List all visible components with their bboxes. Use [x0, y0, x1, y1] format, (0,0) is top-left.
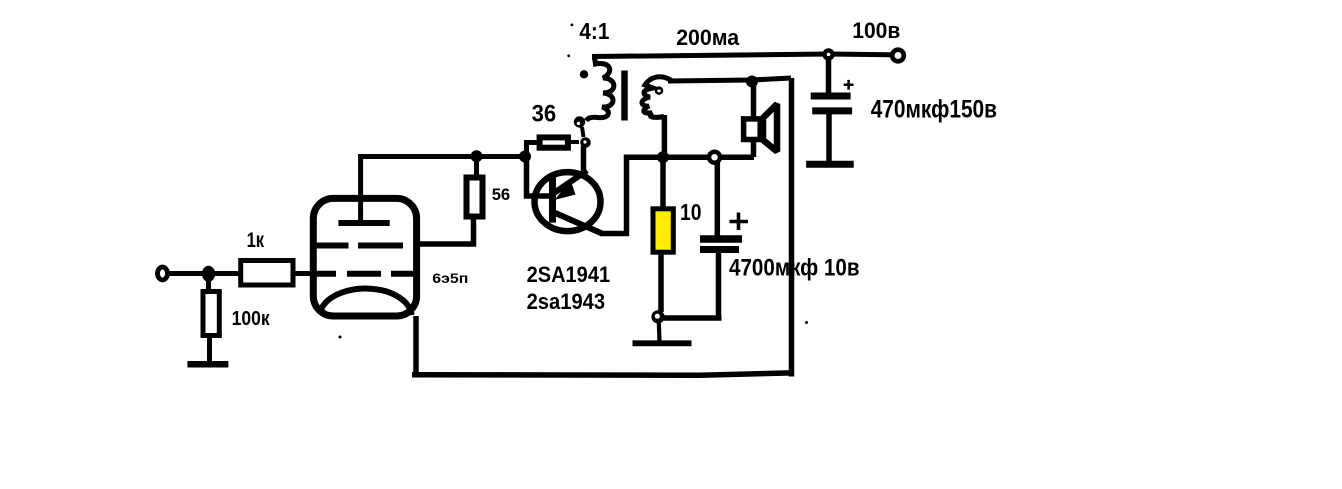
svg-text:100в: 100в: [852, 18, 900, 43]
junction emitter line / R5: [657, 151, 669, 163]
svg-text:100к: 100к: [232, 308, 271, 330]
junction top rail / C2: [822, 48, 834, 60]
svg-text:4:1: 4:1: [579, 18, 609, 44]
wire C2 bottom lead: [826, 113, 832, 161]
wire base node to R4: [527, 143, 541, 159]
svg-text:200ма: 200ма: [676, 25, 739, 50]
junction base node: [519, 151, 531, 163]
wire between node circles: [582, 127, 584, 137]
tube V1 control grid dashed: [315, 271, 418, 277]
ground GND3 bar: [806, 161, 854, 168]
transistor Q1 emitter diagonal: [554, 171, 587, 194]
wire anode lead up: [358, 154, 363, 223]
transformer T1 primary phase dot: [580, 70, 588, 78]
resistor R4 36: [540, 137, 568, 147]
wire screen grid to R3: [416, 219, 474, 244]
svg-text:2sa1943: 2sa1943: [527, 289, 606, 314]
wire R5 bottom lead: [658, 250, 664, 312]
stray speck 1: [571, 24, 574, 27]
svg-text:1к: 1к: [247, 229, 265, 252]
wire ground link to C1: [663, 253, 722, 318]
transistor Q1 base bar: [549, 175, 556, 223]
output terminal 100v: [892, 50, 904, 62]
svg-text:56: 56: [492, 185, 511, 204]
svg-text:2SA1941: 2SA1941: [527, 262, 611, 287]
junction input node: [202, 266, 215, 282]
wire base node down to transistor base: [527, 155, 553, 196]
stray speck 4: [805, 321, 808, 324]
wire R1 to tube grid1: [293, 271, 314, 276]
transformer T1 secondary phase dot: [656, 88, 662, 94]
svg-text:4700мкф 10в: 4700мкф 10в: [729, 255, 860, 282]
wire input to junction: [168, 271, 241, 276]
wire speaker bottom lead: [751, 142, 757, 157]
tube V1 envelope 6e5p: [313, 198, 416, 316]
svg-text:470мкф150в: 470мкф150в: [871, 96, 997, 124]
wire emitter vertical from node circle: [581, 146, 587, 174]
svg-text:36: 36: [532, 100, 557, 127]
transformer T1 primary winding: [586, 57, 614, 121]
stray speck 3: [339, 336, 342, 339]
wire right rail down: [789, 78, 795, 377]
wire secondary bottom lead: [662, 115, 668, 158]
transformer T1 secondary winding: [642, 77, 673, 118]
node circle primary bottom terminal: [574, 116, 585, 127]
svg-text:6э5п: 6э5п: [432, 271, 468, 286]
resistor R5 10: [653, 209, 673, 252]
resistor R3 56: [467, 178, 483, 217]
wire bottom rail: [412, 373, 791, 375]
tube V1 screen grid dashed: [315, 243, 404, 249]
wire C1 to tap circle: [715, 161, 721, 236]
wire node to R3 top: [474, 156, 479, 176]
speaker LS1 cone: [763, 104, 777, 152]
transistor Q1 collector diagonal: [553, 212, 602, 234]
junction speaker top node: [746, 76, 758, 88]
wire C2 top lead: [826, 56, 832, 96]
wire junction down to R2: [206, 274, 211, 295]
wire R5 top lead: [660, 157, 666, 212]
stray speck 2: [567, 54, 570, 57]
label C2 polarity +: [844, 80, 854, 90]
wire cathode down to bottom rail: [413, 316, 419, 375]
node circle emitter terminal: [580, 137, 591, 148]
wire top rail 200ma: [595, 54, 891, 60]
wire R4 to node circle: [568, 140, 579, 144]
ground GND1: [187, 361, 228, 368]
tube V1 cathode arc: [322, 289, 412, 315]
wire speaker top lead: [751, 82, 757, 117]
capacitor C2 top plate: [811, 93, 851, 100]
resistor R1 1k: [241, 261, 293, 286]
tube V1 anode plate: [338, 220, 389, 226]
input terminal J1: [158, 267, 168, 280]
capacitor C2 bottom plate: [812, 107, 852, 114]
wire collector to riser: [600, 157, 754, 233]
ground GND2 bar: [633, 340, 692, 346]
wire anode rail to base node: [358, 154, 526, 159]
transistor Q1 emitter arrow: [555, 180, 576, 200]
capacitor C1 bottom plate: [700, 246, 739, 253]
wire R2 to ground: [207, 335, 212, 362]
node circle C1 tap: [709, 152, 720, 163]
label C1 polarity +: [730, 213, 749, 231]
svg-text:10: 10: [680, 199, 702, 225]
resistor R2 100k: [203, 292, 219, 336]
wire secondary top to right rail: [668, 78, 791, 81]
junction anode/R3 node: [471, 150, 483, 162]
speaker LS1 body: [744, 119, 761, 140]
transformer T1 core: [621, 71, 628, 121]
transistor Q1 circle 2SA1941: [535, 172, 601, 231]
capacitor C1 top plate: [700, 235, 742, 243]
ground GND2 stem: [657, 322, 662, 346]
node circle ground: [651, 310, 664, 323]
